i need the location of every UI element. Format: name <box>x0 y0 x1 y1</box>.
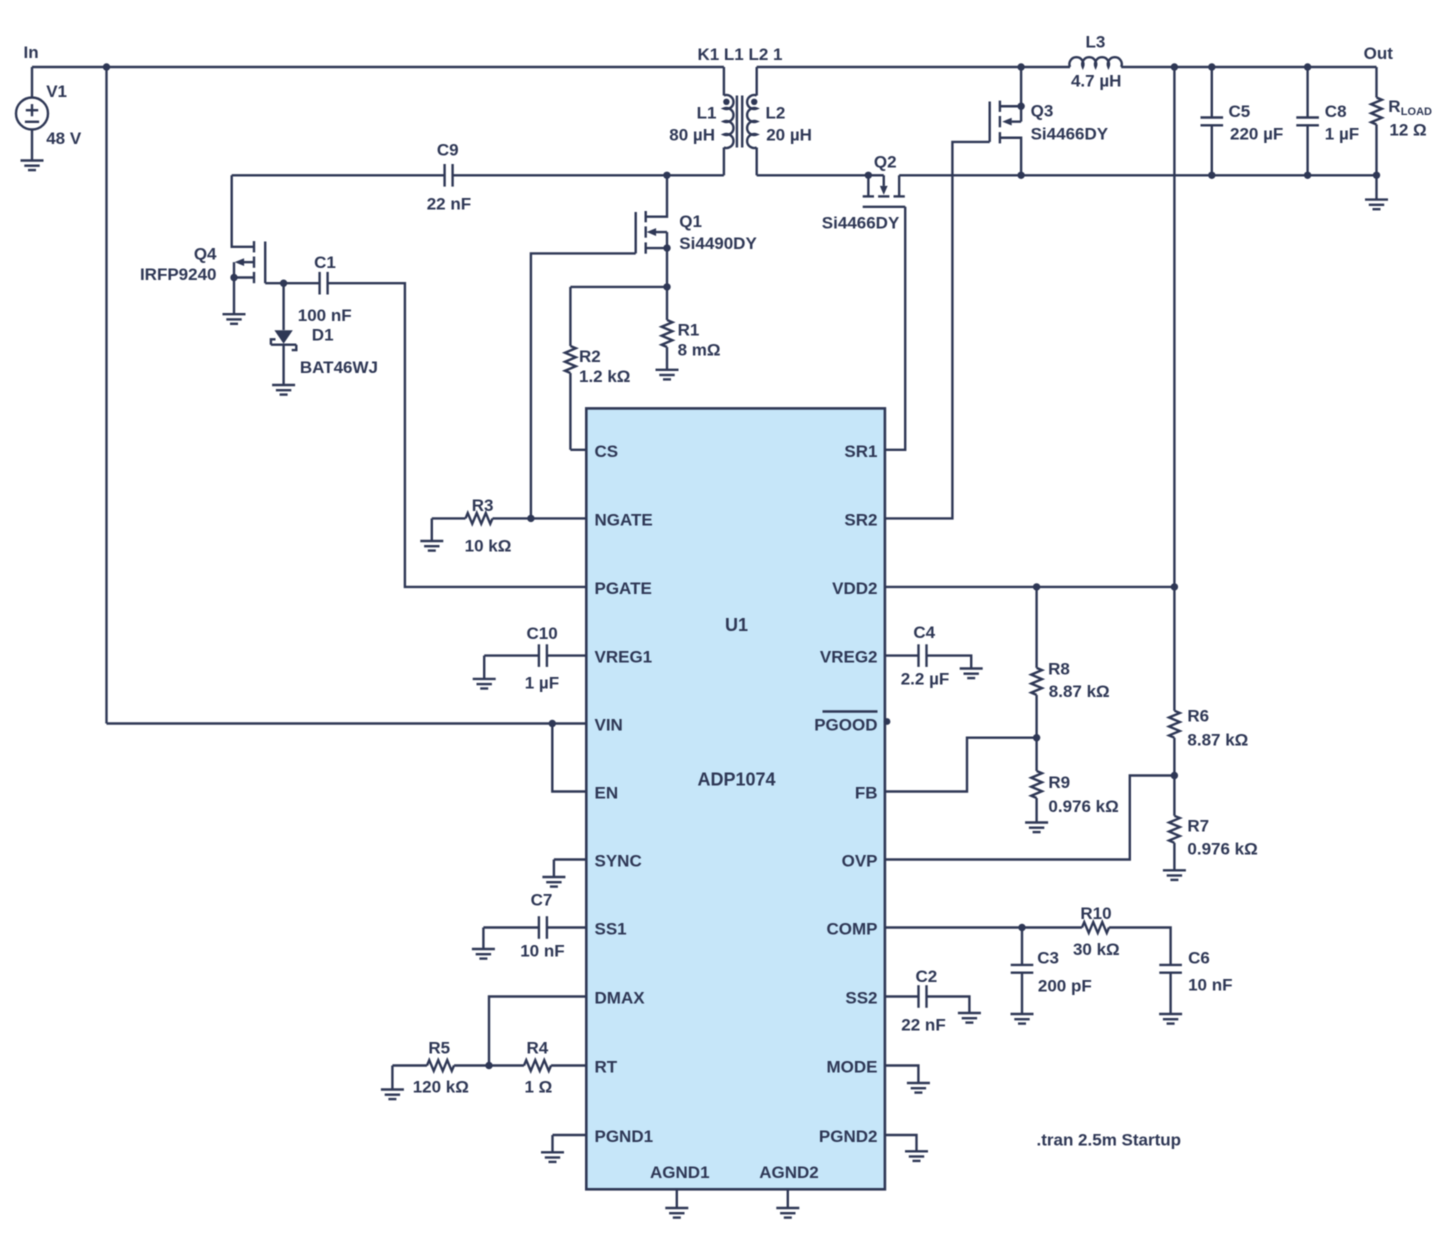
svg-text:R7: R7 <box>1187 817 1209 836</box>
svg-text:K1 L1 L2 1: K1 L1 L2 1 <box>697 45 782 64</box>
diode D1 BAT46WJ <box>271 283 378 385</box>
ground C10 <box>473 656 496 689</box>
svg-text:Si4466DY: Si4466DY <box>1031 124 1109 143</box>
transistor Q4 IRFP9240 <box>140 175 284 314</box>
ground R5 <box>381 1066 404 1100</box>
wire FB <box>885 738 1037 792</box>
svg-text:1.2 kΩ: 1.2 kΩ <box>579 367 630 386</box>
wire Out rail right <box>1121 66 1376 68</box>
svg-text:0.976 kΩ: 0.976 kΩ <box>1048 797 1118 816</box>
pin SS2 <box>845 989 877 1008</box>
resistor RLOAD 12ohm <box>1371 67 1432 175</box>
svg-text:OVP: OVP <box>842 852 878 871</box>
wire OVP <box>885 776 1175 860</box>
svg-text:120 kΩ: 120 kΩ <box>413 1078 469 1097</box>
wire SW node <box>453 174 724 176</box>
svg-text:R3: R3 <box>472 496 494 515</box>
svg-text:2.2 µF: 2.2 µF <box>901 670 950 689</box>
ground R7 <box>1163 870 1186 880</box>
svg-text:PGOOD: PGOOD <box>814 716 877 735</box>
svg-text:R8: R8 <box>1048 659 1070 678</box>
capacitor C10 1uF <box>484 624 586 692</box>
ground D1 <box>272 385 295 395</box>
ground AGND1 <box>665 1189 688 1217</box>
svg-text:CS: CS <box>595 442 619 461</box>
svg-text:8.87 kΩ: 8.87 kΩ <box>1187 731 1248 750</box>
ground SYNC <box>542 860 586 887</box>
wire secondary rail <box>899 174 1376 176</box>
resistor R2 1.2kohm <box>565 287 630 450</box>
ground AGND2 <box>776 1189 799 1217</box>
capacitor C9 22nF <box>427 141 471 214</box>
wire SR1 <box>885 207 905 450</box>
svg-text:R10: R10 <box>1080 904 1111 923</box>
ground PGND2 <box>885 1135 928 1161</box>
resistor R6 8.87kohm <box>1169 706 1248 775</box>
transformer K1 (L1/L2) <box>723 67 757 175</box>
svg-text:Q2: Q2 <box>874 152 897 171</box>
resistor R3 10kohm <box>432 496 512 556</box>
node In label <box>24 43 39 62</box>
svg-text:80 µH: 80 µH <box>669 126 715 145</box>
pin PGND2 <box>819 1127 878 1146</box>
capacitor C1 100nF <box>298 253 352 325</box>
svg-text:R5: R5 <box>428 1038 450 1057</box>
ground R1 <box>656 370 679 380</box>
svg-text:R2: R2 <box>579 347 601 366</box>
pin NGATE <box>595 510 653 529</box>
svg-text:LOAD: LOAD <box>1401 106 1432 118</box>
svg-text:VDD2: VDD2 <box>832 579 877 598</box>
svg-text:220 µF: 220 µF <box>1230 124 1283 143</box>
junction RLOAD bottom <box>1373 172 1380 179</box>
svg-text:22 nF: 22 nF <box>901 1016 945 1035</box>
capacitor C4 2.2uF <box>885 623 971 689</box>
wire C9 left <box>232 174 445 176</box>
svg-text:L2: L2 <box>766 104 786 123</box>
svg-text:12 Ω: 12 Ω <box>1389 121 1426 140</box>
junction Q2 source <box>865 172 872 179</box>
resistor R4 1ohm <box>489 1038 586 1096</box>
junction DMAX/RT <box>485 1062 492 1069</box>
svg-text:22 nF: 22 nF <box>427 194 471 213</box>
junction Q4 gate node <box>280 280 287 287</box>
svg-text:C4: C4 <box>913 623 935 642</box>
pin MODE <box>827 1058 878 1077</box>
ground Q4 drain <box>223 314 246 324</box>
capacitor C5 220uF <box>1201 67 1284 175</box>
transistor Q2 Si4466DY <box>822 152 905 232</box>
pin PGATE <box>595 579 652 598</box>
wire DMAX <box>489 997 586 1066</box>
wire VIN drop <box>105 67 107 724</box>
label K1 statement <box>697 45 782 64</box>
svg-text:SS2: SS2 <box>845 989 877 1008</box>
ground MODE <box>885 1066 930 1093</box>
svg-text:C3: C3 <box>1037 948 1059 967</box>
pin PGOOD dot <box>884 718 891 725</box>
pin SYNC <box>595 852 642 871</box>
ground C3 <box>1011 1014 1034 1024</box>
pin SS1 <box>595 920 627 939</box>
junction C8 top <box>1304 63 1311 70</box>
svg-text:R6: R6 <box>1187 706 1209 725</box>
svg-text:200 pF: 200 pF <box>1038 977 1092 996</box>
voltage source V1 48V <box>16 67 82 161</box>
pin AGND1 <box>650 1163 710 1182</box>
junction C5 top <box>1208 63 1215 70</box>
transistor Q3 Si4466DY <box>990 67 1109 175</box>
pin EN <box>595 784 619 803</box>
svg-text:48 V: 48 V <box>46 129 82 148</box>
svg-text:D1: D1 <box>312 326 334 345</box>
wire NGATE <box>493 517 587 519</box>
svg-text:BAT46WJ: BAT46WJ <box>300 358 378 377</box>
svg-text:SYNC: SYNC <box>595 852 642 871</box>
svg-text:0.976 kΩ: 0.976 kΩ <box>1187 840 1257 859</box>
svg-text:R: R <box>1388 97 1400 116</box>
wire R10 to C6 <box>1109 928 1171 965</box>
pin VREG1 <box>595 648 653 667</box>
pin CS <box>595 442 619 461</box>
op-amp U1 ADP1074 block <box>586 408 885 1189</box>
ground C7 <box>472 928 495 959</box>
ground C2 <box>958 1013 981 1023</box>
svg-text:AGND2: AGND2 <box>759 1163 819 1182</box>
svg-text:C9: C9 <box>437 141 459 160</box>
svg-text:R1: R1 <box>678 321 700 340</box>
svg-text:PGND1: PGND1 <box>595 1127 654 1146</box>
junction Out/Q3 <box>1017 63 1024 70</box>
ground V1 <box>21 161 44 171</box>
svg-text:U1: U1 <box>725 615 748 635</box>
svg-text:L3: L3 <box>1085 33 1105 52</box>
wire VIN to pin <box>107 722 587 724</box>
svg-text:SR2: SR2 <box>844 510 877 529</box>
pin DMAX <box>595 989 646 1008</box>
svg-text:EN: EN <box>595 784 619 803</box>
pin SR2 <box>844 510 877 529</box>
resistor R10 30kohm <box>1073 904 1120 959</box>
wire PGATE <box>328 283 587 587</box>
junction C8 bottom <box>1304 172 1311 179</box>
pin PGND1 <box>595 1127 654 1146</box>
ground C6 <box>1159 1014 1182 1024</box>
wire Q1 gate <box>531 253 636 518</box>
svg-text:VREG2: VREG2 <box>820 648 878 667</box>
pin VDD2 <box>832 579 877 598</box>
svg-text:MODE: MODE <box>827 1058 878 1077</box>
junction C5 bottom <box>1208 172 1215 179</box>
ground PGND1 <box>541 1135 586 1162</box>
svg-text:8.87 kΩ: 8.87 kΩ <box>1049 682 1110 701</box>
svg-text:20 µH: 20 µH <box>766 126 812 145</box>
svg-text:Q1: Q1 <box>679 212 702 231</box>
svg-text:10 kΩ: 10 kΩ <box>465 537 512 556</box>
svg-text:DMAX: DMAX <box>595 989 646 1008</box>
svg-text:10 nF: 10 nF <box>520 942 564 961</box>
svg-text:Out: Out <box>1364 44 1394 63</box>
pin PGOOD <box>814 712 877 735</box>
capacitor C3 200pF <box>1011 928 1092 1015</box>
pin SR1 <box>844 442 877 461</box>
pin VIN <box>595 716 623 735</box>
pin RT <box>595 1058 618 1077</box>
junction VDD2/R8 <box>1033 583 1040 590</box>
svg-text:SS1: SS1 <box>595 920 627 939</box>
svg-text:R4: R4 <box>527 1038 549 1057</box>
resistor R1 8mohm <box>662 287 721 370</box>
svg-text:PGATE: PGATE <box>595 579 652 598</box>
wire VDD2 <box>885 586 1175 588</box>
svg-text:4.7 µH: 4.7 µH <box>1071 72 1121 91</box>
svg-text:NGATE: NGATE <box>595 510 653 529</box>
svg-text:FB: FB <box>855 784 878 803</box>
junction SW <box>663 172 670 179</box>
label L2 value <box>766 104 812 145</box>
capacitor C8 1uF <box>1296 67 1359 175</box>
wire C1 left <box>284 282 320 284</box>
junction COMP/C3 <box>1018 924 1025 931</box>
svg-text:30 kΩ: 30 kΩ <box>1073 940 1120 959</box>
node Out label <box>1364 44 1394 63</box>
pin AGND2 <box>759 1163 819 1182</box>
wire Q2 source tie <box>868 174 883 176</box>
svg-text:Si4466DY: Si4466DY <box>822 213 900 232</box>
resistor R8 8.87kohm <box>1031 587 1110 738</box>
junction NGATE <box>527 515 534 522</box>
junction In/VIN <box>103 63 110 70</box>
junction R6/R7/OVP <box>1171 772 1178 779</box>
ground RLOAD <box>1365 175 1388 209</box>
wire SR2 <box>885 142 990 519</box>
svg-text:1 µF: 1 µF <box>1325 124 1359 143</box>
svg-text:1 Ω: 1 Ω <box>524 1078 552 1097</box>
junction Q3 source stub <box>1017 103 1024 110</box>
wire R2 top <box>570 286 667 288</box>
pin OVP <box>842 852 878 871</box>
transistor Q1 Si4490DY <box>636 175 758 287</box>
label L1 value <box>669 104 716 145</box>
wire COMP <box>885 926 1082 928</box>
svg-text:1 µF: 1 µF <box>525 674 559 693</box>
svg-text:Q4: Q4 <box>194 244 217 263</box>
svg-text:Q3: Q3 <box>1031 102 1054 121</box>
capacitor C6 10nF <box>1159 948 1232 1014</box>
svg-text:VREG1: VREG1 <box>595 648 653 667</box>
svg-text:PGND2: PGND2 <box>819 1127 878 1146</box>
svg-text:C1: C1 <box>314 253 336 272</box>
wire right vertical <box>1173 67 1175 711</box>
junction VIN/EN <box>549 720 556 727</box>
svg-text:8 mΩ: 8 mΩ <box>678 341 721 360</box>
svg-text:Si4490DY: Si4490DY <box>679 234 757 253</box>
junction Out/right vertical <box>1171 63 1178 70</box>
junction VDD2/right vertical <box>1171 583 1178 590</box>
svg-text:100 nF: 100 nF <box>298 306 352 325</box>
wire Out rail left <box>757 66 1070 68</box>
svg-text:V1: V1 <box>46 82 67 101</box>
svg-text:.tran 2.5m Startup: .tran 2.5m Startup <box>1037 1130 1182 1149</box>
svg-text:COMP: COMP <box>827 920 878 939</box>
wire CS <box>570 449 586 451</box>
svg-text:C2: C2 <box>916 967 938 986</box>
junction Q3 drain rail <box>1017 172 1024 179</box>
svg-text:C6: C6 <box>1188 948 1210 967</box>
svg-text:L1: L1 <box>697 104 717 123</box>
pin VREG2 <box>820 648 878 667</box>
capacitor C7 10nF <box>483 891 586 961</box>
junction Q1 source node <box>663 283 670 290</box>
resistor R9 0.976kohm <box>1031 738 1119 823</box>
svg-text:AGND1: AGND1 <box>650 1163 710 1182</box>
pin COMP <box>827 920 878 939</box>
svg-text:C7: C7 <box>531 891 553 910</box>
svg-text:RT: RT <box>595 1058 618 1077</box>
junction R8/R9/FB <box>1033 734 1040 741</box>
wire EN <box>552 724 586 792</box>
resistor R5 120kohm <box>392 1038 489 1096</box>
svg-text:C10: C10 <box>527 624 558 643</box>
svg-text:C8: C8 <box>1325 102 1347 121</box>
svg-text:ADP1074: ADP1074 <box>697 769 775 789</box>
svg-text:In: In <box>24 43 39 62</box>
capacitor C2 22nF <box>885 967 970 1035</box>
svg-text:R9: R9 <box>1048 773 1070 792</box>
resistor R7 0.976kohm <box>1169 776 1258 871</box>
svg-text:VIN: VIN <box>595 716 623 735</box>
svg-text:SR1: SR1 <box>844 442 877 461</box>
ground R3 <box>420 518 443 550</box>
ground R9 <box>1025 823 1048 833</box>
svg-text:10 nF: 10 nF <box>1188 976 1232 995</box>
inductor L3 4.7uH <box>1069 33 1121 91</box>
ground C4 <box>960 669 983 679</box>
svg-text:IRFP9240: IRFP9240 <box>140 265 217 284</box>
wire In rail <box>32 66 724 68</box>
label spice directive <box>1037 1130 1182 1149</box>
pin FB <box>855 784 878 803</box>
wire L2 return <box>757 174 869 176</box>
svg-text:C5: C5 <box>1229 102 1251 121</box>
